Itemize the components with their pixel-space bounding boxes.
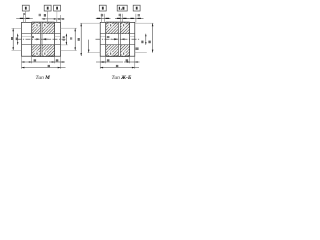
shaft gap dim right view <box>114 38 118 40</box>
bottom labels <box>36 75 50 81</box>
keyway lines in hub bores <box>101 36 106 38</box>
top small dim under box5 <box>119 14 121 16</box>
right-side dims <box>135 22 154 24</box>
flange top section hatch <box>32 22 55 33</box>
bottom dims right view <box>99 56 101 69</box>
v-dim d at x17.7 <box>17 34 19 45</box>
shaft gap dim left view <box>42 38 46 40</box>
bolt centers <box>110 24 111 26</box>
left-of-right-view dims <box>80 22 100 24</box>
flange top section hatch <box>106 22 130 33</box>
flange outline extensions <box>32 21 55 23</box>
bolt holes <box>108 23 113 28</box>
top small dim b (left) <box>23 14 25 23</box>
top small dim right end <box>135 14 137 23</box>
box 3 <box>54 5 61 11</box>
box 6 <box>133 5 140 11</box>
top small dim H (right view) <box>101 14 103 23</box>
zone separation lines <box>106 27 130 29</box>
flange bottom section hatch <box>32 45 55 57</box>
flange left edge <box>31 23 33 56</box>
box 2 <box>44 5 51 11</box>
bolt holes <box>35 23 40 28</box>
centerline right view <box>96 38 141 40</box>
top dim l (left view right part) <box>42 18 62 20</box>
box 1 <box>22 5 29 11</box>
bolt centers <box>36 24 37 26</box>
flange bottom section hatch <box>106 45 130 57</box>
flange outline extensions <box>106 21 130 23</box>
outer dark strips <box>32 22 55 23</box>
seam gap <box>119 23 120 56</box>
outer dark strips <box>106 22 130 23</box>
seam gap <box>41 23 42 56</box>
row2 L dim <box>22 67 66 69</box>
box 4 <box>99 5 106 11</box>
keyway lines in hub bores <box>22 36 32 38</box>
center seam <box>40 23 42 56</box>
left hub body <box>22 22 61 56</box>
bore top line <box>22 33 61 35</box>
bore lines <box>100 33 135 35</box>
bottom dims left view <box>21 56 23 69</box>
bore bottom line <box>22 44 61 46</box>
between-view dims (left view right side) <box>61 44 68 46</box>
flange right edge <box>54 23 56 56</box>
zone separation lines <box>32 27 55 29</box>
v-dim D1 at x13 <box>12 28 14 50</box>
row1 l1 dims <box>22 61 49 63</box>
right view body <box>100 22 135 56</box>
centerline left view <box>17 38 66 40</box>
flange edges <box>105 23 107 56</box>
box 5 (wide) <box>117 5 127 11</box>
